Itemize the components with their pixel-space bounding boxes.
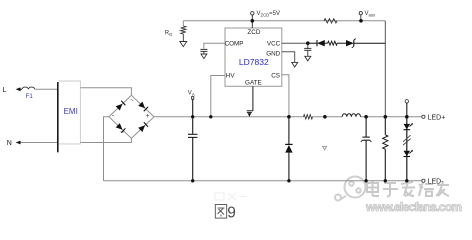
node junction VCC: [306, 41, 310, 45]
LED D-led2: [404, 151, 411, 157]
wire: [21, 88, 22, 90]
wire VA stub: [192, 99, 194, 117]
wire EMI to bridge top: [80, 88, 131, 96]
wire EMI to bridge bottom: [80, 138, 131, 142]
bridge diode D2 (top-right): [138, 102, 148, 112]
svg-text:VZCD=5V: VZCD=5V: [257, 11, 280, 18]
wire: [35, 88, 58, 90]
svg-text:~: ~: [120, 129, 124, 136]
node junction D-fw/rail: [287, 179, 290, 182]
capacitor C-comp: [200, 48, 207, 50]
capacitor C-bus: [192, 117, 194, 134]
svg-text:GATE: GATE: [245, 79, 262, 86]
wire VCC: [282, 42, 308, 44]
terminal arrow L: [16, 87, 21, 91]
node LED+ terminal: [422, 115, 425, 118]
svg-text:LED-: LED-: [428, 179, 445, 186]
wire top: [183, 20, 385, 22]
svg-text:EMI: EMI: [64, 107, 78, 116]
ground below GND pin: [292, 62, 298, 67]
diode D-fw (freewheel): [288, 117, 290, 144]
resistor R-aux (top): [324, 19, 337, 23]
node junction LED string/bus: [405, 115, 409, 119]
svg-text:HV: HV: [226, 73, 236, 80]
svg-text:www.elecfans.com: www.elecfans.com: [365, 200, 462, 214]
wire bus: [154, 116, 304, 118]
wire GATE: [252, 86, 254, 111]
node junction cap/rail: [191, 179, 194, 182]
node LED- terminal: [422, 179, 425, 182]
node junction dummy-load resistor: [384, 115, 388, 119]
node junction output cap: [364, 115, 368, 119]
svg-text:ZCD: ZCD: [247, 29, 260, 36]
svg-text:9: 9: [227, 205, 236, 222]
bridge diode D1 (top-left): [116, 101, 126, 111]
ground below C-vcc: [307, 50, 309, 56]
VA terminal square: [192, 97, 194, 100]
svg-text:N: N: [7, 140, 12, 147]
terminal arrow N: [16, 141, 21, 145]
svg-text:F1: F1: [26, 93, 34, 100]
caption 图9: [215, 205, 226, 219]
node junction LED string/rail: [405, 179, 408, 182]
transistor Q1: [247, 110, 253, 112]
wire RG drop: [182, 21, 184, 26]
inductor L1: [342, 114, 360, 117]
svg-text:VCC: VCC: [267, 41, 281, 48]
wire zener to right drop: [354, 42, 386, 44]
zener diode Z1 (points right): [346, 40, 354, 46]
node junction HV/bus: [209, 115, 212, 118]
faint watermark wisps above caption: [215, 193, 247, 200]
wire: [21, 142, 58, 144]
svg-text:LED+: LED+: [428, 115, 446, 122]
svg-text:CS: CS: [271, 73, 280, 80]
bridge diode D4 (bottom-right): [138, 122, 148, 132]
svg-text:VA: VA: [188, 90, 195, 97]
ground (arrow) below RG: [182, 34, 184, 42]
bridge diode D3 (bottom-left): [116, 123, 126, 133]
svg-text:L: L: [3, 87, 7, 94]
svg-text:+: +: [146, 113, 150, 120]
return rail: [104, 180, 422, 182]
wire right drop from top to bus: [384, 21, 386, 117]
svg-text:COMP: COMP: [225, 41, 244, 48]
svg-text:RG: RG: [165, 31, 173, 38]
LED D-led1: [404, 124, 411, 129]
node junction after R-cs: [323, 115, 327, 119]
resistor R-out: [384, 117, 386, 135]
svg-text:~: ~: [130, 97, 134, 104]
wire GND: [282, 52, 295, 63]
node test terminal above LED string: [405, 100, 408, 103]
node junction CS/bus: [287, 115, 291, 119]
node junction C-out/rail: [364, 179, 367, 182]
ground below C-comp: [203, 51, 205, 54]
svg-text:LD7832: LD7832: [239, 57, 269, 67]
svg-text:Vaux: Vaux: [365, 11, 377, 18]
bridge rectifier outline: [109, 95, 154, 138]
watermark logo circle: [335, 177, 366, 201]
node junction R-out/rail: [384, 179, 387, 182]
watermark text 电子发烧友 (approximated strokes): [367, 181, 449, 197]
node Vaux terminal: [359, 12, 362, 15]
node VZCD terminal: [251, 12, 254, 15]
wire HV: [211, 76, 225, 117]
op-amp U1 LD7832 box: [225, 28, 282, 86]
fuse F1: [22, 87, 35, 89]
EMI filter block: [57, 82, 59, 152]
break marks (more LEDs): [403, 135, 411, 142]
node junction VA/bus: [191, 115, 194, 118]
wire COMP: [204, 43, 225, 49]
capacitor C-vcc: [307, 43, 309, 48]
resistor R-vcc: [328, 41, 338, 45]
ground marker (floating): [323, 146, 327, 150]
diode D-vcc (points left): [308, 42, 317, 44]
capacitor C-out: [365, 117, 367, 137]
resistor R-cs (on bus): [304, 115, 313, 119]
wire bridge left vertex down to return rail: [104, 117, 109, 181]
LED string wire: [406, 117, 408, 181]
resistor RG: [181, 26, 186, 34]
wire CS: [282, 75, 289, 117]
